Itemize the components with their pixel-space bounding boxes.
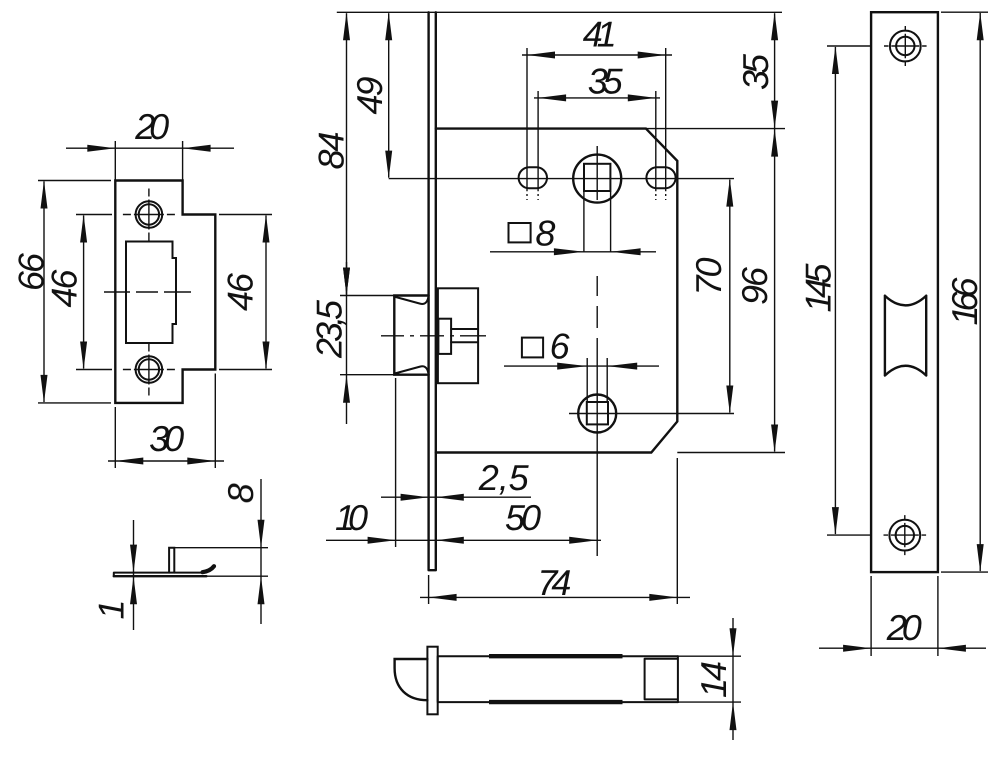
svg-text:35: 35 [588,60,624,101]
svg-text:6: 6 [550,326,571,367]
svg-text:1: 1 [90,599,131,619]
svg-text:2,5: 2,5 [478,457,530,498]
svg-text:49: 49 [349,76,390,114]
svg-text:8: 8 [535,212,555,253]
svg-text:74: 74 [537,562,571,603]
svg-text:41: 41 [583,13,617,54]
svg-text:145: 145 [797,263,838,313]
svg-text:46: 46 [43,269,84,308]
svg-text:14: 14 [693,661,734,698]
svg-text:166: 166 [944,277,985,326]
svg-text:30: 30 [149,418,184,459]
svg-text:46: 46 [219,272,260,311]
svg-text:20: 20 [134,106,169,147]
svg-text:10: 10 [335,497,368,538]
svg-text:70: 70 [688,257,729,295]
svg-text:50: 50 [505,497,541,538]
svg-text:35: 35 [735,53,776,90]
svg-text:23,5: 23,5 [308,299,349,359]
svg-text:8: 8 [220,483,261,503]
svg-text:20: 20 [886,607,922,648]
svg-text:84: 84 [310,131,351,169]
svg-text:96: 96 [734,266,775,305]
